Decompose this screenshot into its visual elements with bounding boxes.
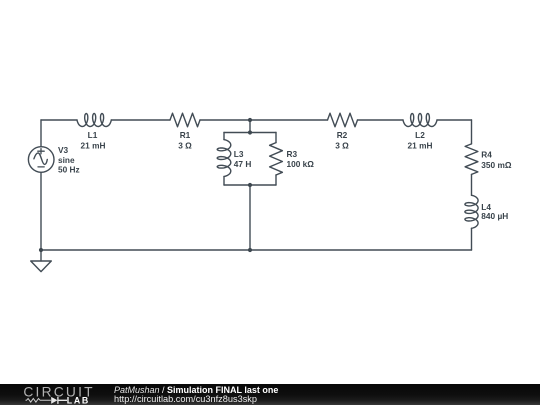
logo diode [51,397,57,404]
node dot tank top [248,130,252,134]
svg-text:R2: R2 [337,130,348,140]
svg-text:R1: R1 [180,130,191,140]
svg-text:47 H: 47 H [234,159,252,169]
wire R4 to L4 [471,174,473,195]
wire tank bottom to rail [249,185,251,250]
svg-text:50 Hz: 50 Hz [58,165,80,175]
svg-text:L3: L3 [234,149,244,159]
inductor L1 [77,114,111,127]
ground stub [40,250,42,261]
logo resistor squiggle [26,399,51,403]
svg-text:R3: R3 [287,149,298,159]
circuitlab logo [0,384,112,405]
V3 plus sign [38,149,44,154]
svg-text:350 mΩ: 350 mΩ [481,160,512,170]
svg-text:LAB: LAB [67,395,90,405]
inductor L3 [217,140,231,177]
wire L1 to R1 [111,119,170,121]
node dot top rail [248,118,252,122]
wire R1 to R2 through node [200,119,328,121]
footer bar [0,384,540,405]
V3 sine wave [34,153,47,165]
svg-text:V3: V3 [58,145,69,155]
svg-text:840 µH: 840 µH [481,211,508,221]
svg-text:100 kΩ: 100 kΩ [287,159,315,169]
wire right branch top [471,120,473,144]
wire L4 to bottom rail [471,228,473,250]
svg-text:21 mH: 21 mH [408,140,433,150]
footer title line [114,385,278,395]
wire R3 branch bottom [275,175,277,185]
wire V3 to bottom rail [40,172,42,250]
inductor L2 [403,114,437,127]
voltage source V3 circle [28,147,54,173]
wire top rail left segment [41,119,77,121]
wire R2 to L2 [358,119,404,121]
wire L3 branch top [223,133,225,140]
resistor R3 [270,143,283,175]
wire tank box bottom [224,184,276,186]
svg-text:L1: L1 [88,130,98,140]
wire left branch top [40,120,42,147]
svg-text:L2: L2 [415,130,425,140]
svg-text:3 Ω: 3 Ω [178,140,192,150]
footer url line [114,394,257,404]
node dot bottom rail left [39,248,43,252]
svg-text:3 Ω: 3 Ω [335,140,349,150]
wire bottom rail [41,249,472,251]
svg-text:R4: R4 [481,150,492,160]
V3 minus sign [38,166,44,168]
wire tank box top [224,132,276,134]
node dot bottom rail mid [248,248,252,252]
wire L2 to top-right corner [437,119,472,121]
svg-text:sine: sine [58,155,75,165]
ground symbol triangle [31,261,52,272]
node dot tank bottom [248,183,252,187]
wire R3 branch top [275,133,277,143]
resistor R2 [328,113,358,127]
resistor R1 [170,113,200,127]
svg-text:21 mH: 21 mH [81,140,106,150]
wire node down to tank top [249,120,251,133]
resistor R4 [465,144,478,175]
wire L3 branch bottom [223,177,225,186]
inductor L4 [465,195,478,228]
